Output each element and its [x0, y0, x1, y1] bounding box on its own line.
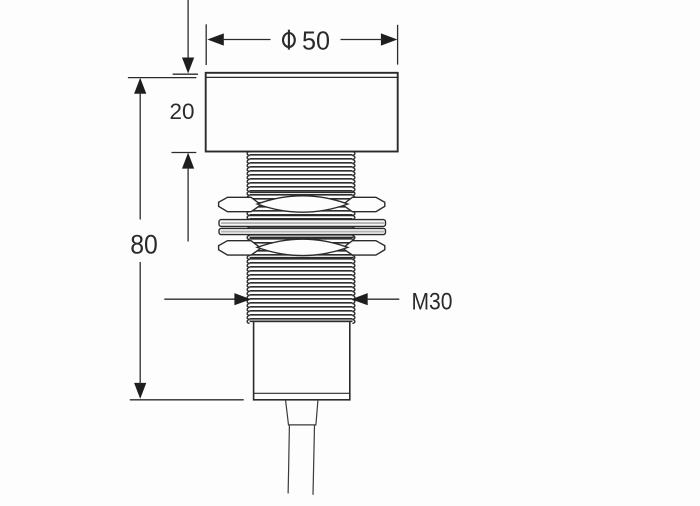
lower cylindrical body [254, 321, 350, 399]
dim 80: top extension line [128, 77, 196, 79]
hex nut lower: top edge [250, 236, 354, 238]
dim M30: left arrowhead (right) [234, 293, 251, 305]
hex nut lower: left facet [219, 241, 261, 255]
hex nut upper: right facet [342, 197, 384, 211]
dim 80: bottom arrowhead (down) [134, 383, 146, 399]
dim 80: top arrowhead (up) [134, 78, 146, 94]
thread bottom line [250, 320, 353, 322]
dim 20: lower arrowhead (up) [182, 153, 194, 169]
dim 20: top tick line [173, 73, 198, 75]
dim phi50: right arrowhead [381, 33, 398, 45]
thread lines [250, 155, 353, 319]
dim phi50: left extension line [205, 24, 207, 65]
dim phi50: right extension line [397, 25, 399, 65]
hex nut upper: left facet [219, 197, 261, 211]
dim 80: shaft lower [139, 262, 141, 385]
dim M30: left shaft [164, 298, 236, 300]
hex nut lower: bottom edge [250, 257, 354, 259]
dim M30: right arrowhead (left) [351, 293, 368, 305]
hex nut lower: center lens facet [257, 239, 348, 255]
dim 80: shaft upper [139, 92, 141, 220]
hex nut upper: bottom edge [250, 215, 354, 217]
svg-text:80: 80 [130, 229, 158, 259]
hex nut upper: top edge [250, 191, 354, 193]
label phi50: phi symbol [283, 30, 295, 50]
thread left edge [247, 152, 249, 324]
hex nut lower: right facet [342, 241, 384, 255]
dim phi50: left arrowhead [207, 33, 224, 45]
washer bar 1 [219, 220, 386, 227]
hex nut upper: center lens facet [257, 196, 348, 212]
dim 20: bottom extension line [172, 152, 197, 154]
dim phi50: shaft left [222, 39, 271, 41]
cable gland [286, 401, 318, 425]
thread right edge [352, 152, 354, 324]
cable right line [313, 425, 315, 495]
dim 20: lower shaft [187, 167, 189, 242]
sensor cap body [206, 73, 398, 152]
dim 80: bottom extension line [130, 399, 244, 401]
washer bar 2 [219, 228, 386, 234]
dim 20: upper arrowhead (down) [182, 58, 194, 74]
cable left line [288, 425, 289, 494]
svg-text:M30: M30 [412, 289, 453, 316]
dim phi50: shaft right [341, 39, 383, 41]
lower body rim line [254, 392, 350, 394]
svg-text:20: 20 [170, 99, 195, 124]
sensor cap top inner line [206, 76, 398, 78]
dim 20: upper leader line [187, 0, 189, 59]
dim M30: right shaft [366, 298, 399, 300]
svg-text:50: 50 [302, 25, 330, 55]
